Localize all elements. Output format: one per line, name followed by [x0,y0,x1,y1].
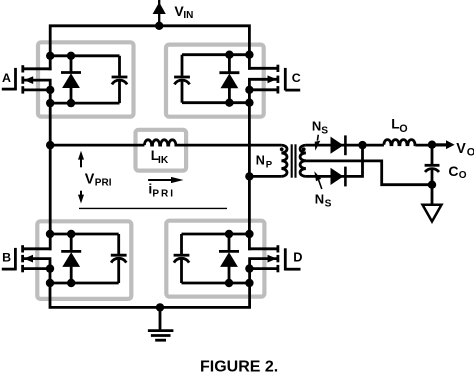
output capacitor CO [425,145,440,206]
junction dot VIN [155,22,163,30]
label NP [256,154,273,171]
capacitor D [174,234,190,283]
switch cell A outline [38,42,134,116]
ground earth symbol [148,307,174,340]
label NS top [312,119,328,137]
wire secondary top to output [306,144,384,147]
output inductor LO coil [384,140,415,145]
svg-text:V: V [456,141,466,157]
junction dot output [428,141,436,149]
leader arrow NS top [315,135,321,151]
VPRI annotation arrows [78,151,84,204]
svg-text:IK: IK [158,155,169,166]
label iPRI [148,181,175,200]
inductor LIK outline [136,130,187,171]
svg-text:L: L [391,116,399,131]
junction dots cell C [225,51,253,107]
label LIK [151,148,169,166]
body diode B [61,234,81,283]
svg-text:A: A [2,71,11,85]
MOSFET C [248,65,300,94]
capacitor A [112,56,128,103]
label VIN [174,3,193,21]
wire cell A bottom [50,102,119,105]
svg-text:S: S [321,126,328,137]
label CO [448,163,466,181]
wire cell A top [50,54,119,57]
wire secondary center tap [306,161,432,185]
leader arrow NS bottom [314,171,322,189]
label VPRI [85,172,112,189]
capacitor C [174,55,190,103]
annotation reference line [79,207,227,209]
svg-text:D: D [293,250,302,265]
switch cell C outline [166,45,264,117]
wire cell D bottom [182,282,250,285]
wire cell B top [50,233,119,236]
svg-text:N: N [312,119,321,134]
wire primary bottom lead [249,175,281,178]
svg-text:N: N [256,154,265,168]
VIN arrow [153,0,166,26]
junction dot primary left [46,141,54,149]
wire left leg rail [49,89,52,251]
svg-text:O: O [399,123,407,135]
wire bottom rail [50,267,250,307]
VO arrow [432,140,455,149]
label VO [456,141,474,159]
transformer primary winding NP [281,145,287,176]
rectifier diode top [331,135,346,155]
junction dot rectifier output [358,141,366,149]
wire cell C top [182,53,249,56]
switch cell D outline [166,221,264,297]
svg-text:PRI: PRI [95,177,112,188]
svg-text:PRI: PRI [152,189,175,200]
junction dots cell B [46,230,76,287]
wire cell D top [182,233,250,236]
svg-text:C: C [448,163,458,179]
label LO [391,116,407,134]
MOSFET A [2,65,52,93]
transformer secondary winding NS bottom [300,161,306,177]
inductor LIK coil [144,140,176,145]
wire secondary bottom and riser [306,145,363,176]
junction dots cell A [46,52,75,108]
svg-text:FIGURE 2.: FIGURE 2. [200,358,278,372]
MOSFET D [248,245,300,272]
svg-text:P: P [266,159,273,170]
body diode D [219,234,239,283]
capacitor B [111,234,127,283]
rectifier diode bottom [331,167,346,187]
svg-text:B: B [2,251,11,265]
svg-text:S: S [325,198,332,209]
svg-text:IN: IN [183,10,193,21]
iPRI annotation arrow [148,177,183,183]
wire cell B bottom [50,282,119,285]
phase dot primary [280,147,284,151]
wire right leg rail [248,88,251,250]
body diode A [61,56,81,103]
transformer secondary winding NS top [300,145,306,161]
MOSFET B [2,245,52,272]
svg-text:O: O [467,146,474,158]
svg-text:N: N [315,191,324,206]
switch cell B outline [37,221,131,299]
svg-text:O: O [459,170,467,181]
junction dot primary bottom [245,172,253,180]
wire top rail VIN [50,26,249,70]
wire cell C bottom [182,101,249,104]
wire primary loop [50,144,281,147]
junction dots cell D [225,230,254,287]
body diode C [219,55,239,103]
ground triangle output [423,205,442,222]
svg-text:C: C [292,71,301,85]
svg-text:V: V [85,172,95,188]
junction dot ground [156,303,164,311]
label NS bottom [315,191,332,209]
junction dot CO bottom [428,181,436,189]
transformer core [292,144,296,177]
phase dot secondary [302,147,306,151]
